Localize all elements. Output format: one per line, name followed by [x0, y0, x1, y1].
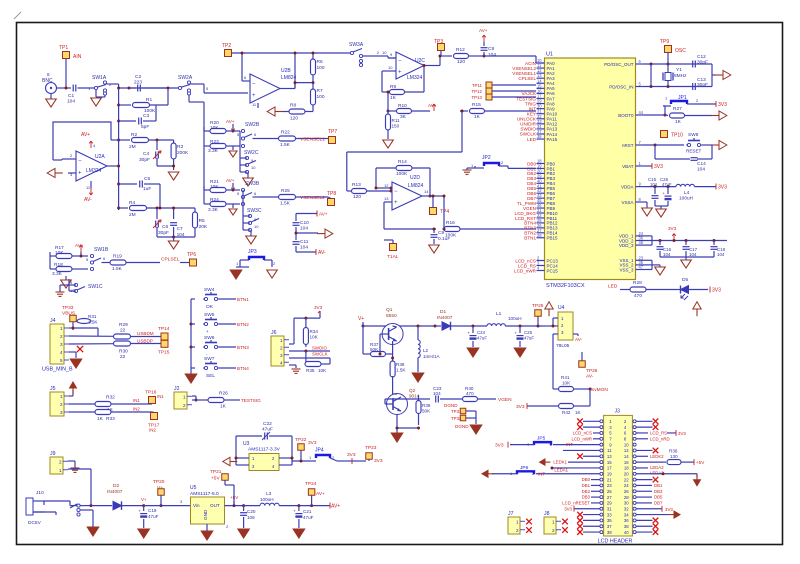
svg-text:IN2: IN2: [149, 428, 156, 433]
resistor R35 10K: [305, 351, 330, 373]
svg-text:2M: 2M: [129, 144, 136, 150]
svg-text:USB_MIN_B: USB_MIN_B: [42, 367, 73, 373]
ground arrow for C12 C13: [712, 64, 731, 87]
capacitor C10 104: [293, 220, 310, 240]
switch SW2B: [237, 122, 261, 148]
power AV+ at SW2B: [226, 119, 235, 133]
svg-text:12: 12: [384, 183, 389, 188]
wire VDDA: [644, 185, 677, 188]
svg-text:R27: R27: [673, 106, 682, 112]
resistor R23 3.3K: [204, 127, 240, 154]
jumper JP6: [492, 465, 600, 477]
svg-text:Vin: Vin: [193, 503, 200, 508]
resistor R29 22: [114, 322, 162, 339]
resistor R37 50K: [363, 326, 393, 357]
svg-text:J9: J9: [50, 451, 56, 457]
connector J5: [50, 386, 69, 416]
switch SW1B: [86, 247, 110, 271]
svg-text:+: +: [78, 171, 82, 177]
svg-text:+: +: [398, 69, 402, 75]
svg-text:C20: C20: [247, 509, 256, 514]
svg-text:BTN1: BTN1: [237, 297, 249, 302]
svg-text:LCD HEADER: LCD HEADER: [598, 539, 633, 545]
wire SW1A to SW2A node: [107, 84, 179, 90]
svg-text:D1: D1: [440, 309, 446, 315]
wire U2D out right: [430, 195, 444, 197]
resistor R40 470: [463, 386, 497, 402]
svg-text:38: 38: [624, 524, 629, 529]
svg-text:U5: U5: [190, 485, 197, 491]
svg-text:R31: R31: [88, 314, 97, 319]
svg-text:LCD_nRESET: LCD_nRESET: [562, 501, 590, 506]
svg-text:TP6: TP6: [187, 252, 196, 258]
svg-text:J4: J4: [50, 318, 56, 324]
power arrow at J5: [69, 382, 95, 412]
svg-text:R18: R18: [54, 262, 63, 268]
resistor R14 100K: [376, 159, 430, 188]
svg-text:VSSA: VSSA: [621, 200, 633, 205]
svg-text:JP4: JP4: [315, 448, 324, 454]
connector J10 DC jack: [26, 490, 44, 526]
svg-text:11: 11: [607, 448, 612, 453]
svg-text:R7: R7: [317, 88, 323, 94]
svg-text:AV-: AV-: [318, 250, 326, 256]
svg-text:JP6: JP6: [520, 465, 529, 471]
svg-text:LM824: LM824: [281, 75, 297, 81]
ground under R11: [383, 140, 394, 148]
wire U4 down to R41: [553, 341, 558, 389]
capacitor C23 104: [385, 386, 462, 404]
svg-text:AMS1117-5.0: AMS1117-5.0: [190, 491, 219, 497]
jumper JP1: [663, 95, 716, 106]
ground chassis at J9: [68, 461, 91, 506]
svg-text:3V3: 3V3: [314, 305, 323, 310]
svg-text:104: 104: [717, 252, 725, 257]
ground under SW2C: [243, 172, 254, 186]
svg-text:DGND: DGND: [444, 403, 458, 408]
svg-text:104: 104: [650, 182, 658, 187]
svg-text:R12: R12: [456, 47, 465, 53]
wire C1 to SW1A: [78, 87, 96, 89]
net 3V3 at JP1: [716, 101, 727, 108]
svg-text:3V3: 3V3: [678, 431, 686, 436]
svg-text:1: 1: [183, 394, 186, 399]
svg-text:LM324: LM324: [407, 75, 423, 81]
pushbutton SW7: [191, 356, 249, 379]
svg-text:J8: J8: [544, 511, 550, 517]
wires VDD to 3V3: [644, 236, 728, 245]
net label LCD_nRD: [636, 436, 669, 441]
svg-text:T1AL: T1AL: [387, 254, 399, 260]
svg-text:1K: 1K: [575, 410, 582, 415]
transistor Q2 9014: [387, 388, 420, 415]
net 3V3 left row16: [564, 506, 600, 512]
X at J7: [526, 519, 532, 533]
svg-text:1K: 1K: [675, 119, 682, 125]
svg-text:1K: 1K: [474, 114, 481, 120]
ground under J4: [70, 359, 82, 368]
svg-text:R3: R3: [177, 144, 183, 150]
pushbutton SW4: [191, 287, 249, 310]
LED D5: [676, 277, 708, 300]
wire Q1 rail: [363, 325, 437, 328]
svg-text:22: 22: [120, 354, 126, 360]
resistor R11 150: [386, 91, 401, 140]
svg-text:SW2C: SW2C: [244, 150, 259, 156]
jumper JP3: [236, 249, 276, 267]
wire J3 left row 6: [563, 449, 600, 451]
ground JP3 left: [230, 267, 242, 279]
net 3V3 at R42: [516, 403, 527, 410]
svg-text:1: 1: [60, 326, 63, 331]
svg-text:1K: 1K: [390, 95, 397, 101]
svg-text:AIN: AIN: [73, 54, 82, 60]
X mark J3 left row 13: [577, 453, 600, 459]
svg-text:−: −: [398, 59, 402, 65]
svg-text:SW8: SW8: [688, 132, 699, 138]
svg-text:TP16: TP16: [145, 390, 157, 396]
svg-text:+: +: [138, 509, 141, 514]
svg-text:2: 2: [552, 528, 555, 533]
switch SW1A: [88, 75, 112, 95]
svg-text:OSC: OSC: [675, 48, 686, 54]
svg-text:R15: R15: [472, 102, 481, 108]
net label LEDA3: [636, 468, 664, 476]
resistor R42 1K: [527, 389, 590, 415]
svg-text:R41: R41: [561, 375, 570, 380]
svg-text:10: 10: [251, 165, 256, 170]
svg-text:100uH: 100uH: [679, 196, 694, 202]
svg-text:J2: J2: [174, 386, 180, 392]
svg-text:+: +: [468, 331, 471, 336]
svg-text:TP2: TP2: [222, 43, 231, 49]
switch SW3C: [243, 190, 262, 232]
power 3V3 at R34: [294, 305, 323, 341]
svg-text:TP23: TP23: [365, 445, 377, 451]
svg-text:V+: V+: [358, 316, 364, 322]
capacitor C22 47uF: [236, 421, 292, 440]
svg-text:DB0: DB0: [582, 477, 591, 482]
net label SWCLK: [312, 352, 328, 357]
inductor L3 100uH: [244, 491, 330, 507]
wire J9 J10 node: [90, 504, 113, 507]
svg-text:AV+: AV+: [319, 212, 328, 217]
wire R12 to ACIN pin: [484, 56, 544, 63]
svg-text:R14: R14: [398, 159, 407, 165]
ground under C20: [238, 529, 250, 538]
ground under J6: [292, 369, 301, 373]
svg-text:INT: INT: [538, 471, 545, 476]
svg-text:DB3: DB3: [654, 489, 663, 494]
resistor R21 10K: [204, 179, 240, 193]
pushbutton SW6: [191, 335, 249, 358]
net 3V3 after JP4: [347, 452, 366, 464]
svg-text:−: −: [252, 81, 256, 87]
svg-text:R25: R25: [281, 188, 290, 194]
svg-text:38: 38: [537, 134, 542, 139]
wire U2D minus in down: [384, 202, 436, 229]
svg-text:AMS1117-3.3V: AMS1117-3.3V: [248, 447, 281, 453]
wires J6 pins: [289, 341, 330, 368]
svg-text:AV+: AV+: [331, 504, 340, 510]
connector J3 LCD header: [598, 408, 637, 544]
button column left bus: [190, 299, 193, 372]
svg-text:U2D: U2D: [410, 175, 420, 181]
svg-text:−: −: [78, 159, 82, 165]
ground under L2: [412, 373, 424, 382]
svg-text:DC5V: DC5V: [28, 520, 42, 526]
svg-text:20: 20: [624, 471, 629, 476]
crystal Y1 8MHz: [663, 64, 687, 87]
svg-text:BTN4: BTN4: [237, 366, 249, 371]
svg-text:3V3: 3V3: [668, 226, 677, 231]
svg-text:22: 22: [624, 477, 629, 482]
svg-text:+: +: [206, 330, 209, 335]
svg-text:20K: 20K: [199, 224, 208, 230]
svg-text:1: 1: [59, 468, 62, 473]
svg-text:1K: 1K: [220, 404, 227, 410]
svg-text:SWDIO: SWDIO: [312, 346, 327, 351]
capacitor C11 104: [293, 239, 309, 252]
test point TP14: [158, 326, 170, 340]
svg-text:3.3K: 3.3K: [208, 148, 219, 154]
resistor R31 1.5K: [73, 314, 98, 330]
svg-text:R22: R22: [281, 130, 290, 136]
svg-text:R6: R6: [317, 59, 323, 65]
svg-text:LEDA2: LEDA2: [650, 465, 664, 470]
svg-text:47uF: 47uF: [477, 336, 487, 341]
svg-text:R5: R5: [199, 218, 205, 224]
test point TP16: [145, 390, 164, 405]
svg-text:DB5: DB5: [654, 495, 663, 500]
net label LCD_RS: [636, 430, 686, 436]
svg-text:Q1: Q1: [386, 307, 393, 313]
X marks J3 left rows 1-3: [577, 419, 600, 430]
test point TP25: [532, 303, 544, 326]
resistor R39 50K: [385, 395, 431, 425]
test point TP5: [384, 240, 399, 260]
net label USBDM: [137, 331, 154, 336]
capacitor C1 104: [67, 85, 76, 105]
wire U5 out: [225, 495, 246, 529]
svg-text:78L05: 78L05: [556, 343, 570, 349]
svg-text:104: 104: [488, 52, 496, 58]
svg-text:VBAT: VBAT: [622, 164, 634, 169]
svg-text:470: 470: [466, 391, 474, 396]
ground arrow at U2A input: [47, 168, 63, 177]
svg-text:LCD_nRD: LCD_nRD: [650, 436, 670, 441]
connector J8 header: [544, 511, 561, 534]
svg-text:30pF: 30pF: [139, 157, 150, 163]
svg-text:SW6: SW6: [204, 335, 215, 341]
svg-text:BTN3: BTN3: [237, 345, 249, 350]
svg-text:+5V: +5V: [696, 460, 705, 465]
svg-text:104: 104: [663, 252, 671, 257]
svg-text:104: 104: [689, 252, 697, 257]
power AV- at C11: [296, 249, 326, 256]
svg-text:10K: 10K: [210, 125, 219, 131]
ground under SW7: [185, 372, 197, 383]
test point TP21: [210, 469, 234, 506]
svg-text:L4: L4: [684, 190, 690, 196]
svg-text:30pF: 30pF: [697, 60, 708, 66]
svg-text:34: 34: [624, 512, 629, 517]
svg-text:130: 130: [670, 454, 678, 459]
capacitor C26 47uF: [650, 177, 672, 206]
svg-text:R32: R32: [106, 395, 115, 401]
svg-text:PD/OSC_OUT: PD/OSC_OUT: [604, 62, 634, 67]
svg-text:LCD_RS: LCD_RS: [650, 431, 667, 436]
ground arrow at R8: [267, 107, 283, 116]
ground under C25: [514, 348, 526, 357]
svg-text:R11: R11: [392, 118, 401, 123]
svg-text:SW2B: SW2B: [245, 122, 260, 128]
test point TP32: [451, 415, 466, 421]
wire C6 C7 R5 common: [157, 236, 195, 239]
J10 switch contacts: [33, 501, 93, 527]
svg-text:PB15: PB15: [547, 236, 559, 241]
jumper JP5: [510, 436, 600, 448]
svg-text:LCD_nWR: LCD_nWR: [514, 268, 537, 273]
svg-text:+: +: [394, 200, 398, 206]
test point TP22: [295, 437, 317, 463]
wire R14 feedback: [375, 168, 432, 198]
power AV+ at C10: [296, 211, 328, 222]
IC U1 STM32F103CX body: [545, 52, 636, 290]
X mark right row22: [636, 477, 658, 483]
test point TP11: [472, 82, 492, 88]
net label VSENSEL2: [300, 195, 325, 201]
resistor R17 10K: [50, 245, 88, 259]
net label LCD_nWR: [571, 436, 599, 441]
svg-text:+: +: [293, 509, 296, 514]
svg-text:31: 31: [607, 506, 612, 511]
svg-text:V+: V+: [157, 485, 163, 491]
svg-text:VGEN: VGEN: [498, 397, 512, 403]
svg-text:TP15: TP15: [158, 350, 170, 356]
regulator U4 78L05: [556, 305, 573, 349]
svg-text:TP13: TP13: [472, 95, 483, 100]
switch SW2A: [178, 75, 248, 95]
op-amp U2A LM324: [53, 151, 120, 181]
svg-text:C3: C3: [143, 113, 149, 119]
ground under J10: [87, 527, 99, 536]
svg-text:TP10: TP10: [671, 133, 683, 139]
svg-text:3V3: 3V3: [718, 185, 727, 191]
switch SW3B: [237, 181, 261, 206]
svg-text:R8: R8: [290, 103, 296, 109]
svg-text:100uH: 100uH: [260, 497, 274, 502]
svg-text:14: 14: [424, 189, 429, 194]
svg-text:+: +: [252, 93, 256, 99]
resistor R33 1K: [95, 410, 152, 423]
svg-text:VSENSEL2: VSENSEL2: [300, 195, 325, 201]
svg-text:1: 1: [280, 338, 283, 343]
net label SWDIO: [312, 346, 327, 351]
svg-text:DB2: DB2: [582, 489, 591, 494]
svg-text:1.5K: 1.5K: [112, 266, 123, 272]
test point TP8: [327, 191, 336, 206]
svg-text:USBDM: USBDM: [137, 331, 154, 336]
op-amp U2C LM324: [388, 52, 440, 81]
svg-text:1.5K: 1.5K: [280, 142, 291, 148]
net label TESTSIG: [241, 398, 261, 403]
svg-text:DGND: DGND: [455, 424, 469, 429]
net label VGEN: [498, 397, 512, 403]
svg-text:TP20: TP20: [153, 479, 165, 485]
X marks J3 right bottom: [636, 518, 658, 535]
svg-text:R23: R23: [210, 139, 219, 145]
svg-text:SWCLK: SWCLK: [312, 352, 328, 357]
svg-text:13: 13: [384, 196, 389, 201]
svg-text:AV+: AV+: [81, 132, 90, 138]
wire OSC_OUT: [644, 53, 713, 66]
svg-text:AV+: AV+: [479, 28, 488, 33]
svg-text:8550: 8550: [386, 313, 397, 319]
svg-text:+5V: +5V: [230, 495, 239, 500]
svg-text:120: 120: [457, 59, 465, 65]
net label LCD_nCS: [573, 431, 600, 436]
svg-text:U2A: U2A: [95, 154, 105, 160]
svg-text:37: 37: [607, 524, 612, 529]
net label USBDP: [137, 339, 153, 344]
svg-text:21: 21: [607, 477, 612, 482]
wires U4: [545, 318, 558, 341]
svg-text:104: 104: [67, 99, 75, 105]
wires J3 left DB rows: [582, 477, 600, 499]
net 3V3 at JP5: [495, 442, 508, 449]
svg-text:10K: 10K: [210, 184, 219, 190]
resistor R38 1.5K: [390, 357, 406, 395]
svg-text:R28: R28: [633, 280, 642, 286]
svg-text:J10: J10: [36, 490, 44, 496]
regulator U5 AMS1117-5.0: [190, 485, 225, 524]
svg-text:3V3: 3V3: [712, 288, 721, 294]
resistor R34 10K: [303, 318, 318, 347]
test point TP10: [661, 131, 684, 139]
net label LEDA1: [551, 466, 600, 472]
op-amp U2A feedback loop: [53, 122, 119, 160]
power 3V3 above VDD rail: [668, 226, 677, 242]
svg-text:TP11: TP11: [472, 83, 483, 88]
svg-text:TP31: TP31: [451, 409, 462, 414]
svg-text:2: 2: [60, 334, 63, 339]
svg-text:AV+: AV+: [316, 491, 325, 497]
svg-text:AV-: AV-: [84, 197, 92, 203]
ground under C24: [467, 348, 479, 357]
svg-text:R2: R2: [131, 132, 137, 138]
ground under R3: [168, 165, 179, 181]
wire SW3A to U2C: [378, 56, 396, 58]
net label DGND1: [444, 403, 458, 408]
svg-text:LEDA1: LEDA1: [554, 467, 568, 472]
resistor R6 100: [311, 52, 325, 90]
svg-text:LED: LED: [527, 137, 537, 142]
capacitor C18 104: [711, 241, 726, 258]
resistor R20 10K: [204, 120, 240, 134]
resistor R8 120: [282, 103, 313, 122]
hollow arrow right of C25: [693, 302, 701, 316]
svg-text:BTN2: BTN2: [237, 322, 249, 327]
svg-text:R35: R35: [306, 368, 315, 373]
svg-text:SW2A: SW2A: [178, 75, 193, 81]
ground arrow at C10: [295, 229, 333, 238]
svg-text:U3: U3: [243, 441, 250, 447]
switch SW3A: [349, 42, 387, 67]
svg-text:SW1C: SW1C: [88, 284, 103, 290]
svg-text:8: 8: [47, 72, 50, 77]
test point TP24: [305, 481, 325, 506]
